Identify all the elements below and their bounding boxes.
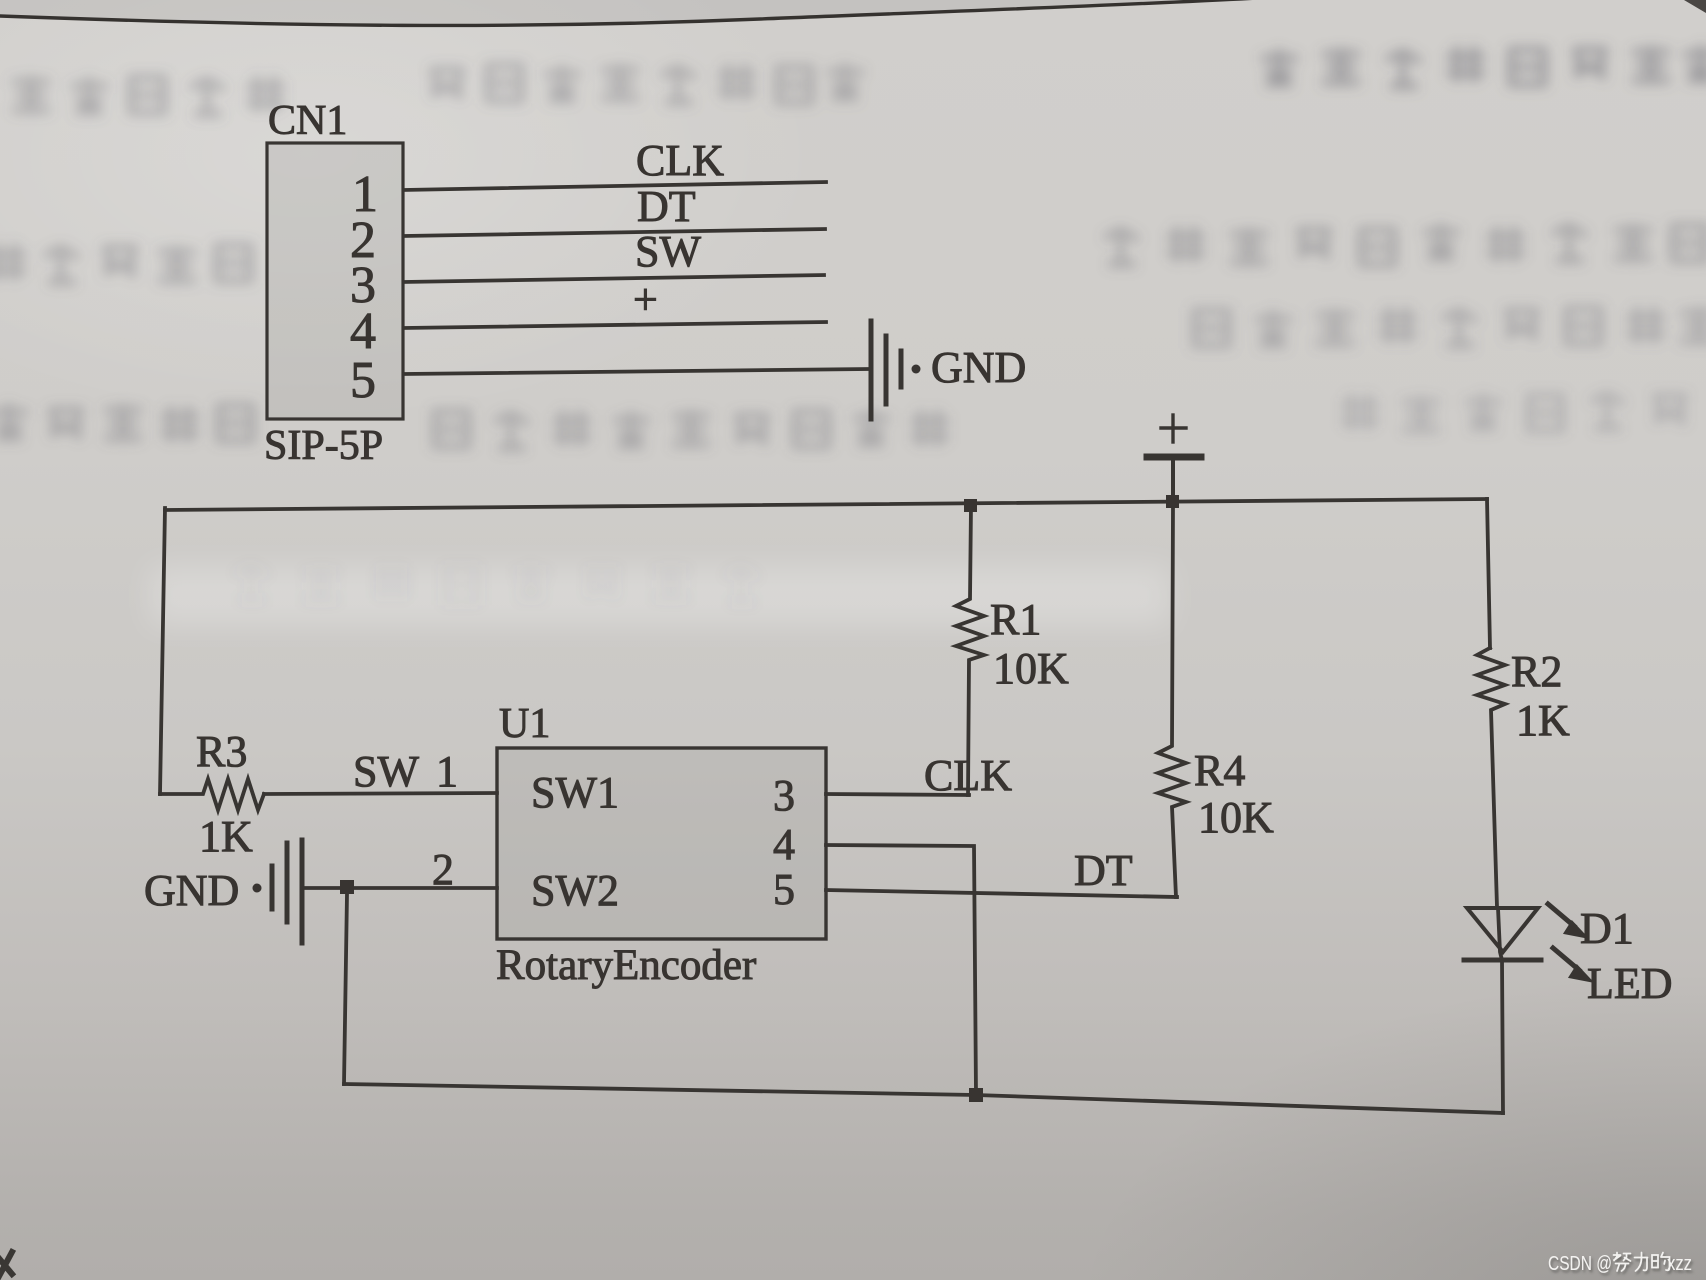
- bleed row top-middle: [429, 63, 864, 104]
- bleed row 2 right: [1104, 223, 1706, 266]
- node junction bottom: [969, 1088, 983, 1102]
- wire U1 pin3 to CLK node: [826, 794, 969, 795]
- rotary encoder U1 box: [497, 748, 826, 939]
- wire U1 pin4 right then down: [826, 845, 976, 1094]
- wire through LED to bottom rail: [1498, 908, 1503, 1113]
- diode D1 cathode bar: [1464, 958, 1541, 963]
- svg-text:xzz: xzz: [1667, 1253, 1692, 1275]
- LED arrow 1: [1548, 904, 1586, 937]
- wire CN1 pin3 SW: [404, 275, 824, 282]
- bleed row 3 right: [1195, 307, 1706, 349]
- ground symbol at U1 pin2: [253, 840, 303, 943]
- LED arrow 2: [1553, 948, 1591, 981]
- wire main loop top: [165, 499, 1487, 510]
- wire bottom rail: [344, 1084, 1503, 1113]
- wire CN1 pin1 CLK: [404, 182, 826, 190]
- svg-text:CSDN @: CSDN @: [1548, 1253, 1612, 1275]
- wire CN1 pin2 DT: [404, 229, 825, 236]
- node junction SW2: [340, 880, 354, 894]
- page corner mark top-right: [1684, 0, 1706, 13]
- bleed row top-right (darker): [1261, 45, 1706, 88]
- bleed faint middle row: [234, 563, 759, 604]
- resistor R4 vertical with leads: [1158, 505, 1186, 897]
- diode D1 LED triangle: [1467, 908, 1538, 952]
- node junction top R1: [964, 499, 977, 512]
- wire junction down to bottom rail: [344, 894, 347, 1084]
- bleed row 4 far right (faint): [1341, 392, 1688, 434]
- resistor R1 vertical with leads: [956, 506, 984, 795]
- page corner glyph bottom-left: [0, 1252, 12, 1280]
- resistor R2 vertical: [1477, 648, 1505, 907]
- bleed row 2 left: [0, 244, 250, 284]
- bleed row top-left: [12, 76, 285, 116]
- bleed row 4 left: [0, 403, 252, 442]
- wire CN1 pin5 to ground: [404, 369, 867, 374]
- wire main loop right vertical upper: [1487, 499, 1490, 648]
- page area above edge curve: [0, 0, 1258, 25]
- node junction top R4: [1166, 495, 1179, 508]
- page top edge curve: [0, 0, 1258, 25]
- ground symbol at CN1 pin5: [871, 321, 921, 419]
- power symbol + (supply): [1161, 415, 1186, 442]
- resistor R3: [160, 779, 264, 810]
- wire main loop left vertical: [160, 508, 165, 794]
- wire R3 to U1 pin1: [264, 793, 497, 794]
- bleed row 4 middle: [435, 409, 949, 450]
- wire U1 pin5 DT to R4: [826, 890, 1177, 897]
- wire CN1 pin4 plus: [404, 322, 826, 328]
- connector CN1 box: [267, 143, 403, 419]
- wire ground to U1 pin2: [304, 886, 497, 890]
